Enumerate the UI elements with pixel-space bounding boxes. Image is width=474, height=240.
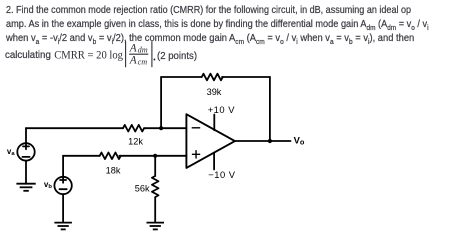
-10 V supply wire [213, 153, 215, 170]
wire: feedback left vertical [160, 77, 162, 128]
wire: 12k to op-amp inverting input [144, 127, 186, 129]
svg-text:Vo: Vo [294, 135, 305, 147]
wire: op-amp output to Vo [235, 140, 291, 142]
node: non-inverting junction [153, 154, 157, 158]
wire: 56k bottom to ground [154, 197, 156, 222]
op-amp plus pin mark [192, 150, 200, 158]
svg-text:12k: 12k [128, 137, 143, 147]
svg-text:b: b [48, 184, 52, 190]
ground (vb) [54, 223, 72, 230]
wire: vb source bottom stem [62, 194, 64, 222]
svg-text:18k: 18k [106, 165, 121, 175]
resistor 12k [123, 125, 144, 132]
svg-text:−10 V: −10 V [208, 169, 236, 180]
wire: va top up to inverting rail [25, 128, 27, 143]
svg-text:39k: 39k [207, 87, 222, 97]
node: output junction [268, 139, 272, 143]
wire: junction down to 56k [154, 156, 156, 176]
op-amp U1 [186, 114, 235, 168]
wire: feedback top right segment [222, 76, 270, 78]
resistor 39k [202, 74, 223, 81]
ground (56k) [147, 223, 165, 230]
paragraph line 3 [6, 33, 414, 44]
voltage source vb [54, 177, 71, 194]
svg-text:+10 V: +10 V [208, 104, 236, 115]
wire: non-inverting rail left segment to 18k [63, 155, 100, 157]
paragraph line 2 [6, 19, 429, 30]
resistor 18k [100, 153, 121, 160]
svg-text:56k: 56k [135, 184, 150, 194]
wire: inverting rail left segment to 12k [26, 127, 123, 129]
svg-text:a: a [11, 151, 15, 157]
voltage source va [17, 143, 34, 160]
wire: feedback top left segment [161, 76, 202, 78]
paragraph line 1 [6, 5, 411, 16]
wire: va source bottom stem [25, 161, 27, 184]
op-amp minus pin mark [192, 127, 201, 129]
wire: 18k to op-amp non-inverting input [119, 155, 186, 157]
formula CMRR = 20 log |Adm/Acm| as svg [0, 0, 220, 75]
wire: feedback right vertical down to output [269, 77, 271, 141]
+10 V supply wire [213, 115, 215, 131]
resistor 56k [152, 176, 159, 197]
paragraph line 4: calculating CMRR = 20 log |Adm/Acm|. (2 points) [5, 50, 51, 61]
node: inverting input junction [159, 126, 163, 130]
wire: vb top up to non-inverting rail [62, 156, 64, 177]
ground (va) [16, 184, 35, 191]
